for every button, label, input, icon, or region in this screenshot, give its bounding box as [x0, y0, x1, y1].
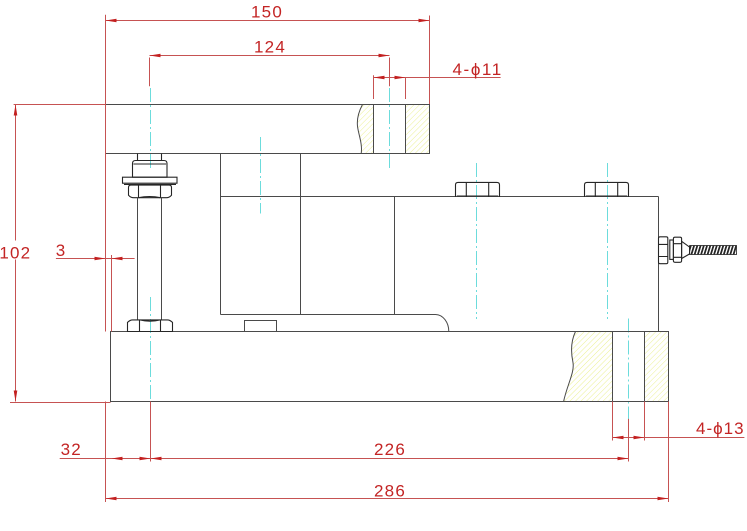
- svg-text:4-ϕ11: 4-ϕ11: [453, 60, 503, 79]
- svg-text:150: 150: [251, 2, 283, 21]
- svg-text:102: 102: [0, 243, 31, 262]
- svg-text:4-ϕ13: 4-ϕ13: [696, 419, 745, 438]
- svg-text:124: 124: [254, 38, 286, 57]
- svg-text:3: 3: [56, 241, 65, 260]
- svg-text:226: 226: [374, 440, 406, 459]
- svg-text:32: 32: [61, 440, 82, 459]
- svg-text:286: 286: [374, 481, 406, 500]
